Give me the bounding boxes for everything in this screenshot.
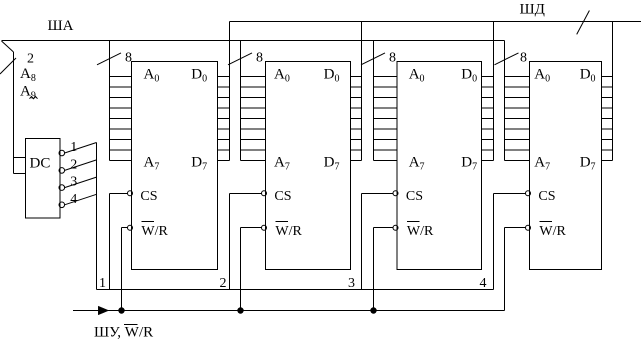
- bus ШД width slash: [577, 11, 590, 35]
- svg-text:DC: DC: [30, 156, 51, 172]
- chip 1 bus width slash: [97, 53, 121, 65]
- wire chip 3 CS horizontal: [362, 193, 394, 195]
- wire select bundle riser: [96, 143, 98, 290]
- svg-text:4: 4: [70, 192, 77, 207]
- wire chip 1 address riser from ША: [109, 41, 111, 161]
- svg-text:8: 8: [125, 50, 132, 65]
- overbar of W in ШУ label: [124, 324, 138, 326]
- chip 2 W overbar: [275, 221, 288, 223]
- wire DC output 2 diagonal: [65, 160, 97, 171]
- chip 4 CS inversion circle: [526, 191, 531, 196]
- DC input stub upper (A8): [14, 157, 26, 159]
- chip 3 W overbar: [407, 221, 420, 223]
- RAM chip 1 box: [132, 62, 218, 270]
- wire chip 3 W/R riser to ШУ: [373, 228, 375, 311]
- svg-text:4: 4: [480, 276, 487, 291]
- svg-text:CS: CS: [140, 189, 157, 204]
- wire chip 1 CS riser to routing line: [109, 194, 111, 290]
- bus width slash 2: [0, 58, 16, 74]
- wire chip 2 CS horizontal: [230, 193, 262, 195]
- wire DC output 1 diagonal: [65, 143, 97, 154]
- bus ША horizontal line: [2, 40, 505, 42]
- DC output 4 inversion circle: [59, 202, 65, 208]
- wire chip 4 W/R horizontal: [505, 227, 526, 229]
- bus ШУ control line: [73, 310, 505, 312]
- DC input stub lower (A9): [14, 173, 26, 175]
- chip 1 address ladder rungs (8 lines): [110, 76, 132, 78]
- junction dot chip 1 W/R on ШУ: [118, 307, 124, 313]
- wire chip 2 CS riser to routing line: [229, 194, 231, 290]
- wire A8/A9 riser to DC: [13, 52, 15, 174]
- svg-text:ШУ, W/R: ШУ, W/R: [94, 325, 153, 341]
- chip 3 data ladder rungs (8 lines): [482, 76, 494, 78]
- svg-text:CS: CS: [538, 189, 555, 204]
- chip 2 CS inversion circle: [262, 191, 267, 196]
- chip 2 data ladder rungs (8 lines): [351, 76, 362, 78]
- wire chip 4 CS riser to routing line: [493, 194, 495, 290]
- wire chip 4 address riser from ША: [504, 41, 506, 161]
- junction dot chip 2 W/R on ШУ: [237, 307, 243, 313]
- spellcheck squiggle under A9: [30, 97, 38, 99]
- svg-text:1: 1: [70, 140, 77, 155]
- svg-text:W/R: W/R: [275, 224, 302, 239]
- chip 3 W/R inversion circle: [393, 225, 398, 230]
- wire chip 1 W/R riser to ШУ: [121, 228, 123, 311]
- svg-text:W/R: W/R: [141, 224, 168, 239]
- wire chip 2 W/R horizontal: [241, 227, 262, 229]
- wire chip 2 W/R riser to ШУ: [240, 228, 242, 311]
- chip 2 W/R inversion circle: [262, 225, 267, 230]
- svg-text:2: 2: [220, 276, 227, 291]
- svg-text:W/R: W/R: [407, 224, 434, 239]
- ШУ arrowhead: [98, 306, 108, 315]
- svg-text:2: 2: [70, 157, 77, 172]
- chip 1 data ladder rungs (8 lines): [218, 76, 230, 78]
- wire DC output 3 diagonal: [65, 177, 97, 188]
- RAM chip 4 box: [530, 62, 602, 270]
- wire chip 1 CS horizontal: [110, 193, 128, 195]
- RAM chip 2 box: [266, 62, 351, 270]
- chip 1 W/R inversion circle: [128, 225, 133, 230]
- chip 4 bus width slash: [495, 53, 519, 65]
- svg-text:ШД: ШД: [520, 1, 545, 17]
- wire DC output 4 diagonal: [65, 194, 97, 205]
- wire chip 1 W/R horizontal: [122, 227, 128, 229]
- wire chip 2 address riser from ША: [240, 41, 242, 161]
- svg-text:3: 3: [70, 175, 77, 190]
- svg-text:2: 2: [27, 51, 34, 66]
- svg-text:ША: ША: [48, 18, 74, 34]
- wire chip 4 CS horizontal: [494, 193, 526, 195]
- chip 2 address ladder rungs (8 lines): [241, 76, 266, 78]
- wire chip 3 address riser from ША: [373, 41, 375, 161]
- wire chip 4 W/R riser to ШУ: [504, 228, 506, 311]
- bus ШД horizontal line: [230, 21, 641, 23]
- wire chip 2 data riser to ШД: [361, 22, 363, 161]
- chip 4 address ladder rungs (8 lines): [505, 76, 530, 78]
- chip 3 CS inversion circle: [393, 191, 398, 196]
- RAM chip 3 box: [397, 62, 482, 270]
- chip 4 W overbar: [539, 221, 552, 223]
- svg-text:3: 3: [348, 276, 355, 291]
- chip 3 address ladder rungs (8 lines): [374, 76, 398, 78]
- chip 4 W/R inversion circle: [526, 225, 531, 230]
- DC output 3 inversion circle: [59, 185, 65, 191]
- chip 2 bus width slash: [228, 53, 252, 65]
- junction dot chip 3 W/R on ШУ: [370, 307, 376, 313]
- svg-text:CS: CS: [274, 189, 291, 204]
- wire chip 3 CS riser to routing line: [361, 194, 363, 290]
- svg-text:CS: CS: [406, 189, 423, 204]
- wire ША corner diagonal: [2, 41, 14, 52]
- svg-text:W/R: W/R: [539, 224, 566, 239]
- wire chip 4 data riser to ШД: [612, 22, 614, 161]
- svg-text:8: 8: [256, 50, 263, 65]
- svg-text:1: 1: [99, 276, 106, 291]
- wire chip 1 data riser to ШД: [229, 22, 231, 161]
- DC output 1 inversion circle: [59, 150, 65, 156]
- svg-text:8: 8: [389, 50, 396, 65]
- wire chip 3 data riser to ШД: [493, 22, 495, 161]
- svg-text:8: 8: [520, 50, 527, 65]
- chip 4 data ladder rungs (8 lines): [602, 76, 613, 78]
- chip 3 bus width slash: [361, 53, 385, 65]
- wire CS routing line (bottom): [97, 289, 494, 291]
- decoder DC box: [26, 139, 61, 219]
- DC output 2 inversion circle: [59, 168, 65, 174]
- chip 1 CS inversion circle: [128, 191, 133, 196]
- chip 1 W overbar: [141, 221, 154, 223]
- wire chip 3 W/R horizontal: [374, 227, 394, 229]
